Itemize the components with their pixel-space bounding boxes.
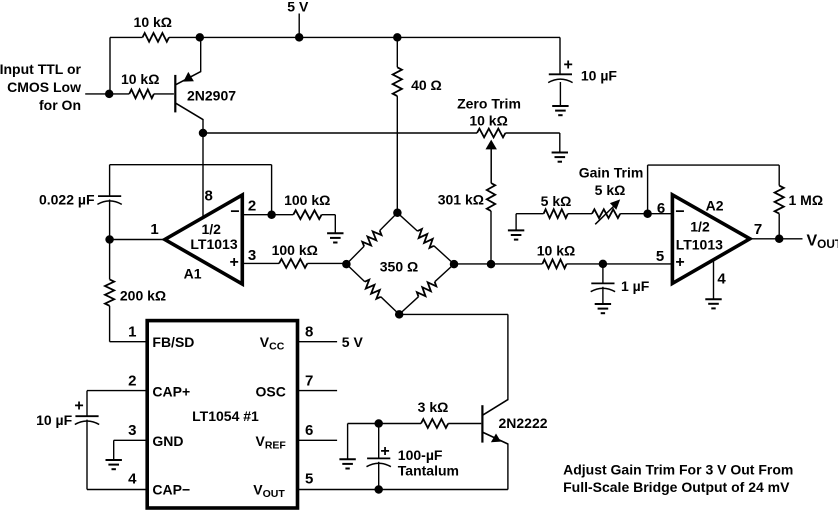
label R8 10 k&#937; (537, 243, 575, 259)
svg-text:+: + (675, 254, 684, 271)
svg-text:A2: A2 (706, 197, 724, 213)
label R7 301 k&#937; (438, 192, 484, 208)
resistor R9 5k (544, 209, 568, 218)
label C2 0.022 &#181;F (39, 192, 95, 208)
junction bridge top (393, 209, 402, 218)
label A2 half (690, 219, 710, 235)
label bridge 350 &#937; (380, 259, 418, 275)
label A2 plus (675, 254, 684, 271)
wire U1 pin8 stub (298, 341, 338, 343)
svg-text:FB/SD: FB/SD (152, 334, 194, 350)
svg-text:200 kΩ: 200 kΩ (120, 288, 166, 304)
junction input node (105, 90, 114, 99)
wire C2 to pin1 node (109, 200, 111, 240)
label input line2 (7, 79, 81, 95)
wire A2 pin4 drop (713, 260, 715, 300)
resistor R1 10k (pull-up) (143, 33, 170, 42)
svg-text:7: 7 (305, 373, 313, 390)
ground zero-trim (552, 153, 568, 162)
junction tantalum bottom node (374, 485, 383, 494)
wire A1 output (110, 239, 165, 241)
svg-text:1/2: 1/2 (690, 219, 710, 235)
caption line2 (563, 479, 790, 495)
label U1 FB/SD (152, 334, 194, 350)
capacitor C1 10uF (548, 74, 572, 82)
svg-text:10 kΩ: 10 kΩ (134, 14, 172, 30)
label U1 CAP+ (152, 384, 190, 400)
wire R4 to ground (322, 215, 336, 234)
wire pot to A2 pin6 (620, 213, 672, 215)
junction collector node (199, 129, 208, 138)
transistor Q2 2N2222 (482, 400, 508, 490)
wire A2 feedback top (648, 164, 780, 166)
label R4 100 k&#937; (284, 192, 330, 208)
label Q2 2N2222 (499, 415, 548, 431)
wire R11 to base (448, 423, 481, 425)
wire 5V stem (298, 14, 300, 38)
junction 5V-rail (295, 33, 304, 42)
label A1 pin3 (248, 247, 256, 264)
wire top rail right segment (169, 36, 560, 38)
wiper arrow VR1 (486, 140, 497, 183)
svg-text:5: 5 (305, 470, 313, 487)
capacitor C5 100uF tantalum (367, 458, 391, 466)
svg-text:Tantalum: Tantalum (398, 462, 459, 478)
svg-text:1 µF: 1 µF (621, 278, 650, 294)
label U1 pin1 (128, 324, 136, 341)
wire C3 stub (602, 264, 604, 284)
wire top rail left segment (110, 36, 143, 38)
svg-text:CAP−: CAP− (152, 482, 190, 498)
svg-text:Full-Scale Bridge Output of 24: Full-Scale Bridge Output of 24 mV (563, 479, 790, 495)
op-amp A1 1/2 LT1013 (165, 195, 243, 284)
wire A2 output (750, 238, 803, 240)
label input line3 (39, 97, 81, 113)
svg-text:CMOS Low: CMOS Low (7, 79, 81, 95)
wire U1 pin6 stub (298, 439, 338, 441)
label U1 pin7 (305, 373, 313, 390)
label U1 5V (342, 334, 364, 350)
label C4 10 &#181;F (36, 412, 73, 428)
svg-text:3: 3 (248, 247, 256, 264)
svg-text:VOUT: VOUT (253, 482, 285, 501)
capacitor C5 100uF plus (380, 443, 389, 460)
wiper arrow VR2 (595, 199, 620, 224)
label U1 pin4 (128, 470, 137, 487)
label U1 pin3 (128, 422, 136, 439)
svg-text:2: 2 (248, 198, 256, 215)
label A2 pin4 (717, 270, 726, 287)
label R1 10 k&#937; (134, 14, 172, 30)
wire R10 to output (778, 214, 780, 239)
wire zero-trim right (505, 133, 559, 153)
resistor R4 100k (293, 210, 321, 219)
wire C3 to ground (602, 287, 604, 304)
label Gain Trim (579, 165, 644, 181)
label U1 pin8 (305, 324, 313, 341)
label A2 minus (675, 204, 684, 221)
svg-text:4: 4 (717, 270, 726, 287)
svg-text:for On: for On (39, 97, 81, 113)
svg-text:+: + (564, 56, 573, 73)
wire 2N2222 collector riser (507, 314, 509, 400)
junction R7 node (487, 260, 496, 269)
svg-text:5: 5 (656, 248, 664, 265)
wire C1 to ground (559, 82, 561, 106)
label R5 200 k&#937; (120, 288, 166, 304)
label Zero Trim (457, 95, 521, 111)
wire A1 pin3 stub (242, 262, 279, 264)
bridge arm top-left (346, 213, 397, 264)
label C3 1 &#181;F (621, 278, 650, 294)
svg-text:−: − (675, 204, 684, 221)
wire 5k ground riser (515, 214, 517, 231)
potentiometer VR1 zero trim (477, 129, 505, 138)
svg-text:10 µF: 10 µF (36, 412, 73, 428)
label U1 OSC (256, 384, 286, 400)
label R9 5 k&#937; (541, 193, 572, 209)
wire U1 pin3 stub (114, 440, 148, 460)
label VOUT output (807, 233, 838, 252)
svg-text:4: 4 (128, 470, 137, 487)
svg-text:2N2907: 2N2907 (187, 88, 236, 104)
junction tantalum top node (374, 419, 383, 428)
caption line1 (563, 462, 793, 478)
svg-text:OSC: OSC (256, 384, 286, 400)
resistor R10 1M (775, 186, 784, 214)
svg-text:301 kΩ: 301 kΩ (438, 192, 484, 208)
svg-text:100 kΩ: 100 kΩ (284, 192, 330, 208)
svg-text:10 kΩ: 10 kΩ (537, 243, 575, 259)
label U1 VREF (256, 433, 287, 452)
wire base stub (154, 93, 174, 95)
wire R8 to A2 pin5 (567, 263, 673, 265)
label A2 LT1013 (676, 236, 723, 252)
svg-text:LT1013: LT1013 (676, 236, 723, 252)
svg-text:6: 6 (657, 200, 665, 217)
junction bridge bottom (395, 310, 404, 319)
wire A1 feedback up (271, 165, 273, 215)
label zero trim value 10 k&#937; (469, 113, 507, 129)
wire A1 pin2 stub (242, 214, 293, 216)
label U1 GND (152, 433, 183, 449)
wire 40ohm to bridge top (396, 96, 398, 213)
label A2 refdes (706, 197, 724, 213)
IC U1 LT1054 box (147, 321, 297, 508)
wire input stub (85, 93, 129, 95)
capacitor C2 0.022uF (97, 196, 121, 204)
svg-text:8: 8 (205, 188, 213, 205)
svg-text:100 kΩ: 100 kΩ (272, 242, 318, 258)
resistor R8 10k (542, 260, 566, 269)
svg-text:100-µF: 100-µF (398, 447, 443, 463)
svg-text:3 kΩ: 3 kΩ (418, 399, 449, 415)
wire C5 bottom (378, 462, 380, 490)
label A1 minus (230, 204, 239, 221)
label R2 10 k&#937; (121, 71, 159, 87)
ground A2 pin4 (705, 299, 721, 308)
5V supply label (287, 0, 309, 15)
label input line1 (0, 61, 82, 77)
resistor R3 40 ohm (393, 67, 402, 96)
resistor R2 10k (base) (129, 90, 154, 99)
svg-text:CAP+: CAP+ (152, 384, 190, 400)
svg-text:3: 3 (128, 422, 136, 439)
junction bridge left (342, 260, 351, 269)
svg-text:Input TTL or: Input TTL or (0, 61, 82, 77)
svg-text:8: 8 (305, 324, 313, 341)
label C1 10 &#181;F (581, 68, 618, 84)
wire A1 feedback top (110, 164, 272, 166)
svg-text:GND: GND (152, 433, 183, 449)
junction A1 pin1 node (105, 235, 114, 244)
svg-text:6: 6 (305, 422, 313, 439)
wire A2 feedback up (647, 165, 649, 214)
label U1 pin2 (128, 373, 136, 390)
svg-text:5 kΩ: 5 kΩ (541, 193, 572, 209)
resistor R6 100k (279, 259, 307, 268)
label U1 VOUT (253, 482, 285, 501)
svg-text:Gain Trim: Gain Trim (579, 165, 644, 181)
svg-text:0.022 µF: 0.022 µF (39, 192, 95, 208)
capacitor C3 1uF (591, 283, 615, 291)
svg-text:5 kΩ: 5 kΩ (595, 182, 626, 198)
bridge arm top-right (397, 213, 454, 264)
svg-text:+: + (380, 443, 389, 460)
label U1 CAPminus (152, 482, 190, 498)
label A1 pin2 (248, 198, 256, 215)
wire bridge right row (454, 263, 542, 265)
svg-text:1/2: 1/2 (201, 221, 221, 237)
label A2 pin6 (657, 200, 665, 217)
wire collector row to zero-trim (203, 132, 477, 134)
junction emitter-rail (196, 33, 205, 42)
label A1 plus (230, 254, 239, 271)
label R11 3 k&#937; (418, 399, 449, 415)
resistor R11 3k (421, 419, 448, 428)
resistor R5 200k (105, 279, 114, 305)
svg-text:5 V: 5 V (287, 0, 309, 15)
svg-text:+: + (230, 254, 239, 271)
wire bridge bottom row (399, 313, 508, 315)
wire tantalum ground riser (347, 424, 349, 460)
capacitor C4 10uF (75, 416, 99, 424)
label U1 VCC (260, 334, 285, 353)
wire A2 feedback right drop (778, 165, 780, 186)
capacitor C1 10uF plus (564, 56, 573, 73)
label A1 pin1 (150, 221, 158, 238)
wire U1 pin7 stub (298, 390, 338, 392)
svg-text:2: 2 (128, 373, 136, 390)
op-amp A2 1/2 LT1013 (672, 195, 750, 284)
svg-text:350 Ω: 350 Ω (380, 259, 418, 275)
svg-text:VOUT: VOUT (807, 233, 838, 252)
wire U1 pin4 stub (87, 489, 147, 491)
wire R9 left stub (516, 213, 544, 215)
junction A2 output node (775, 235, 784, 244)
wire C4 top (86, 391, 88, 417)
label Q1 2N2907 (187, 88, 236, 104)
wire R9 to pot (568, 213, 592, 215)
wire left drop to input node (109, 37, 111, 94)
svg-text:Adjust Gain Trim For 3 V Out F: Adjust Gain Trim For 3 V Out From (563, 462, 793, 478)
wire R6 to bridge (307, 262, 346, 264)
svg-text:40 Ω: 40 Ω (411, 77, 442, 93)
junction bridge right (450, 260, 459, 269)
svg-text:VREF: VREF (256, 433, 287, 452)
capacitor C4 10uF plus (74, 398, 83, 415)
svg-text:10 µF: 10 µF (581, 68, 618, 84)
wire R5 to FB/SD (110, 306, 148, 342)
svg-text:1: 1 (128, 324, 136, 341)
bridge arm bottom-right (399, 264, 454, 314)
label A2 pin7 (754, 221, 762, 238)
svg-text:2N2222: 2N2222 (499, 415, 548, 431)
wire U1 pin5 row (298, 489, 508, 491)
label C5 100-uF (398, 447, 443, 463)
junction C3 node (599, 260, 608, 269)
svg-text:10 kΩ: 10 kΩ (469, 113, 507, 129)
wire 40ohm top stub (396, 37, 398, 67)
potentiometer VR2 gain trim (592, 209, 620, 218)
ground U1 pin3 (106, 460, 122, 469)
svg-text:1 MΩ: 1 MΩ (789, 192, 824, 208)
ground R9 (508, 230, 524, 239)
junction A2 pin6 node (643, 209, 652, 218)
wire pin1-node down (109, 240, 111, 280)
label R10 1 M&#937; (789, 192, 824, 208)
svg-text:LT1013: LT1013 (190, 236, 237, 252)
junction 40ohm-rail (393, 33, 402, 42)
wire R7 to bridge row (490, 211, 492, 264)
wire C5 top stub (378, 424, 380, 459)
label A1 pin8 (205, 188, 213, 205)
ground C1 (552, 106, 568, 115)
wire tantalum row (348, 423, 421, 425)
ground C3 (595, 304, 611, 313)
ground R4 (327, 233, 343, 242)
svg-text:5 V: 5 V (342, 334, 364, 350)
svg-text:+: + (74, 398, 83, 415)
wire A1 feedback left drop (109, 165, 111, 196)
wire rail corner drop (559, 37, 561, 74)
label R3 40 &#937; (411, 77, 442, 93)
label U1 pin5 (305, 470, 313, 487)
bridge arm bottom-left (346, 264, 399, 314)
label A1 refdes (184, 266, 202, 282)
svg-text:−: − (230, 204, 239, 221)
label A1 LT1013 (190, 236, 237, 252)
label U1 LT1054 #1 (192, 408, 259, 424)
svg-text:Zero Trim: Zero Trim (457, 95, 521, 111)
label C5 Tantalum (398, 462, 459, 478)
junction A1 pin2 node (267, 210, 276, 219)
svg-text:LT1054 #1: LT1054 #1 (192, 408, 259, 424)
wire U1 pin2 stub (87, 390, 147, 392)
label U1 pin6 (305, 422, 313, 439)
svg-text:10 kΩ: 10 kΩ (121, 71, 159, 87)
ground tantalum (339, 459, 355, 468)
svg-text:VCC: VCC (260, 334, 285, 353)
svg-text:1: 1 (150, 221, 158, 238)
svg-text:7: 7 (754, 221, 762, 238)
wire A1 pin8 drop (202, 133, 204, 218)
label gain trim value 5 k&#937; (595, 182, 626, 198)
resistor R7 301k (487, 183, 495, 211)
transistor Q1 2N2907 (175, 37, 203, 133)
label A1 half (201, 221, 221, 237)
label A2 pin5 (656, 248, 664, 265)
label R6 100 k&#937; (272, 242, 318, 258)
svg-text:A1: A1 (184, 266, 202, 282)
wire C4 bottom (86, 420, 88, 490)
